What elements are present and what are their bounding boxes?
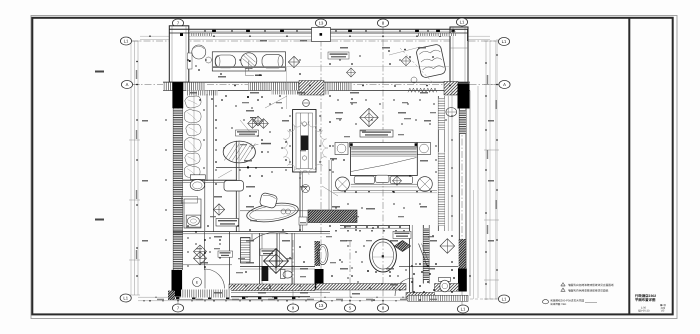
grid line L1 horizontal [131,40,496,42]
bedroom divider vertical [213,91,215,233]
bath wall pair [204,180,206,231]
column mid-bottom [315,269,324,290]
grid line 9 vertical partial [292,240,294,304]
small diamond near chaise [401,56,411,66]
powder toilet [439,278,451,282]
dresser dark band [308,210,357,223]
tub label box [393,231,411,238]
scattered label marks [218,76,226,78]
bottom dimension lines [138,296,462,298]
label box bath [260,249,276,256]
closet wall 2 [259,233,261,284]
leader to L1 right-bottom [470,298,497,300]
toilet left [190,175,205,180]
entry floor hatch 3 [406,292,435,298]
grid bubble 13 bottom [315,302,326,310]
partition edge vertical [286,67,288,109]
balcony sill right [451,91,453,232]
entry door arc [205,269,225,289]
left wall [172,90,174,270]
svg-text:L1: L1 [124,39,129,44]
bed headboard [350,142,417,147]
dimension numbers [157,299,164,300]
bed sheet diagonal [351,158,417,172]
bedroom diamond [360,108,378,126]
svg-text:13: 13 [319,303,324,308]
closet room circle symbol [193,278,202,287]
symbol circle [303,100,310,107]
note triangle 2 [561,288,565,291]
bath-bed divider [235,141,237,232]
comb strip 2 [271,91,329,95]
bath diamond small [213,204,224,215]
grid line 8 vertical [382,27,384,304]
label box 13 top [312,28,331,42]
extra texture bars [242,102,249,103]
grid bubble A right [499,81,510,89]
partition pier checker [299,81,324,96]
title block divider [628,18,630,315]
bath top marks [344,226,346,228]
desk [246,200,300,224]
wardrobe hanging clothes [184,95,202,109]
column top-right [458,83,470,108]
bath label box [216,219,239,227]
dark wall segment above column [315,241,321,266]
TV partition center [293,110,316,173]
lounge chair top-left [192,45,206,59]
floor lamp diamond [288,56,299,67]
closet wall vertical [206,94,208,181]
leader dash to chaise [400,48,434,84]
svg-text:L1: L1 [460,20,465,25]
right wall dark segment [459,239,466,268]
revision cloud [282,121,328,174]
nightstand right [418,143,431,155]
stool left [335,177,349,191]
svg-text:木踢脚线500-F08详见天花图: 木踢脚线500-F08详见天花图 [550,298,585,302]
bath diamond 1 dark [395,241,411,252]
decor diamond cluster [248,119,258,129]
grid bubble 7 top [172,19,183,27]
cabinet shelf band [241,238,251,264]
margin marks left [95,71,104,73]
bathtub [370,239,397,272]
bed body [351,147,418,176]
bottom wall dashes [176,297,179,299]
scattered fitting dots [220,73,221,74]
wall below partition [299,172,301,232]
closet wall line [204,232,206,270]
top wall [169,28,468,30]
note triangle 1 [561,283,565,286]
right outer wall line [469,91,471,297]
WC-corridor wall [291,233,293,284]
grid bubble 9 bottom [287,304,298,312]
grid bubble 7 bottom [172,304,183,312]
closet label box [218,251,233,257]
grid line 7 vertical [177,27,179,304]
grid line A horizontal [132,84,499,86]
entry floor hatch 1 [229,284,315,291]
foot cushions [354,176,374,184]
right dimension lines [489,41,491,299]
grid bubble 13 top [315,19,326,27]
svg-text:A: A [126,82,129,87]
living diamond 2 [346,68,355,77]
dining label box [236,130,259,136]
comb strip 1 [186,91,218,96]
dining leader [249,144,258,146]
top dimension lines [140,35,490,37]
sofa leader [246,68,254,75]
column bottom-right [458,268,467,291]
grid line 11 vertical [461,26,463,305]
closet double diamond [193,245,206,258]
entry floor hatch 4 [435,284,459,292]
chaise top-right [416,44,447,79]
dresser top line [240,210,308,212]
zigzag band [408,88,437,92]
grid bubble L1 right-bottom [498,295,509,303]
bath-powder divider [422,225,424,284]
bath diamond 2 [440,239,455,254]
right wall band [458,108,460,268]
left wall hatch [173,109,182,270]
hatch A band seg2 [248,83,352,91]
svg-text:A: A [503,82,506,87]
stool right [418,177,433,192]
entry top wall [399,265,458,267]
svg-text:墙面乳白色烤漆玻璃留缝详见立面图纸: 墙面乳白色烤漆玻璃留缝详见立面图纸 [568,283,614,287]
svg-text:L1: L1 [502,297,507,302]
bath-entry wall [409,225,411,299]
dimension ticks [149,36,150,37]
WC center [281,270,286,279]
desk circles [281,209,286,214]
bottom wall left room [168,296,310,298]
svg-text:L1: L1 [502,39,507,44]
corridor lower line [229,291,330,293]
bed foot band [351,183,417,185]
dark block closet [262,266,269,281]
carpet border [333,190,437,192]
grid bubble 5 bottom [344,304,355,312]
entry floor hatch 2 [316,284,406,291]
closet mid wall horizontal [240,266,315,268]
duvet fold lines [351,147,416,149]
grid bubble L1 right [498,38,509,46]
grid line 5 vertical partial [349,240,351,304]
leader diagonal top-right [389,47,420,55]
entry threshold comb [408,295,468,301]
grid bubble A left [121,81,132,89]
svg-text:L1: L1 [461,307,466,312]
svg-text:墙面乳白色烤漆玻璃留缝详见图纸: 墙面乳白色烤漆玻璃留缝详见图纸 [568,288,609,292]
grid bubble L1 bottom-left [120,294,131,302]
bath ottoman [224,181,244,192]
soffit line [213,66,450,68]
svg-text:油漆饰面 TBD: 油漆饰面 TBD [550,302,566,306]
grid bubble L1 left [120,37,131,45]
mirror circle-X [302,185,310,193]
hatch A band seg1 [163,83,205,91]
desk chair [259,192,278,208]
dining table [223,141,255,163]
bath shelf [182,197,198,204]
bath vanity left [184,199,201,228]
closet threshold comb [181,290,231,298]
svg-text:平面布置详图: 平面布置详图 [635,298,656,302]
grid bubble 11 top [456,18,467,26]
living carpet edge [216,166,292,168]
ceiling label box [328,52,349,59]
svg-text:L1: L1 [123,296,128,301]
label box above headboard [360,130,393,137]
window mullions top [212,30,216,32]
powder dots [411,265,413,267]
WC wall [276,233,278,267]
left dimension lines [130,41,132,295]
hatch A band seg3 checker [444,82,458,96]
round coffee table [241,53,257,69]
wall band grid A [163,81,470,83]
grid bubble 11 bottom [457,305,468,313]
closet hatch block [168,291,175,300]
svg-text:QD-05-23: QD-05-23 [638,310,650,313]
extra leader lines living [265,96,287,108]
shaft at grid 11 top-right [450,27,468,82]
svg-text:13: 13 [319,21,324,26]
sofa front edge thick [213,66,286,68]
symbol circle right [446,108,457,117]
bedroom entry door arc [252,232,288,241]
closet room wall [229,232,231,297]
corridor top wall [173,230,330,232]
legend ellipse note [543,300,549,304]
closet shelf line [181,264,232,266]
sofa group [212,52,285,71]
foot small diamond [392,176,401,185]
shower door diagonal [419,244,428,268]
bath wall hatch top [340,225,410,227]
wall pair living-bed [328,160,330,210]
window sill comb right [418,33,456,36]
grid bubble 8 bottom [377,304,388,312]
wardrobe shelving band right [437,96,439,231]
bath top wall [183,179,237,181]
entry door arc right [395,278,413,296]
shaft at grid 7 [169,26,189,82]
column bottom-left [172,270,183,296]
column top-left [172,82,183,108]
grid bubble 8 top [377,19,388,27]
grid line 13 vertical [320,27,322,302]
extra texture dots [235,105,236,106]
big floor diamond [264,249,289,274]
vanity center oval [318,244,328,264]
window sill comb left [190,33,213,36]
nightstand left [335,143,348,155]
white label on band [299,217,307,225]
